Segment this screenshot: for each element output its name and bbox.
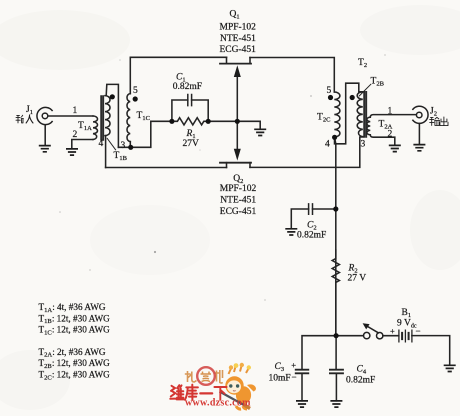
svg-text:MPF-102: MPF-102 [220, 23, 257, 33]
svg-text:1: 1 [73, 106, 78, 116]
svg-text:10mF: 10mF [269, 374, 291, 384]
svg-text:2: 2 [388, 130, 393, 140]
svg-text:MPF-102: MPF-102 [220, 184, 257, 194]
svg-text:9 Vdc: 9 Vdc [397, 319, 417, 330]
svg-text:0.82mF: 0.82mF [297, 231, 326, 241]
svg-text:3: 3 [361, 140, 366, 150]
svg-text:C3: C3 [275, 362, 285, 373]
svg-text:T2: T2 [358, 58, 367, 69]
svg-text:0.82mF: 0.82mF [346, 376, 375, 386]
svg-text:B1: B1 [402, 308, 412, 319]
svg-text:T1C: T1C [137, 111, 150, 122]
svg-text:T1B: T1B [114, 151, 128, 162]
svg-text:Q1: Q1 [230, 10, 240, 21]
svg-text:T2C: T2C [317, 113, 330, 124]
svg-text:ECG-451: ECG-451 [220, 45, 257, 55]
svg-text:+: + [291, 360, 296, 370]
svg-text:27V: 27V [183, 139, 200, 149]
svg-text:T1B: 12t, #30 AWG: T1B: 12t, #30 AWG [39, 313, 111, 325]
svg-text:T1A: T1A [78, 121, 92, 132]
svg-text:T2B: T2B [371, 76, 385, 87]
svg-text:NTE-451: NTE-451 [220, 34, 256, 44]
svg-text:0.82mF: 0.82mF [173, 82, 202, 92]
svg-text:2: 2 [73, 130, 78, 140]
svg-text:3: 3 [121, 141, 126, 151]
svg-text:C4: C4 [357, 365, 367, 376]
svg-text:−: − [416, 326, 421, 336]
svg-text:1: 1 [388, 107, 393, 117]
svg-text:5: 5 [133, 86, 138, 96]
svg-text:Q2: Q2 [233, 174, 243, 185]
svg-text:5: 5 [327, 86, 332, 96]
svg-text:+: + [390, 326, 395, 336]
svg-text:J2: J2 [430, 107, 437, 118]
svg-text:NTE-451: NTE-451 [220, 196, 256, 206]
svg-text:4: 4 [99, 139, 104, 149]
svg-text:4: 4 [325, 140, 330, 150]
svg-text:T1A: 4t, #36 AWG: T1A: 4t, #36 AWG [39, 302, 106, 314]
svg-text:www.dzsc.com: www.dzsc.com [185, 397, 251, 408]
svg-text:ECG-451: ECG-451 [220, 207, 257, 217]
svg-text:J1: J1 [26, 105, 33, 116]
svg-text:−: − [292, 372, 297, 382]
svg-text:27 V: 27 V [348, 274, 367, 284]
svg-text:T1C: 12t, #30 AWG: T1C: 12t, #30 AWG [39, 325, 111, 337]
